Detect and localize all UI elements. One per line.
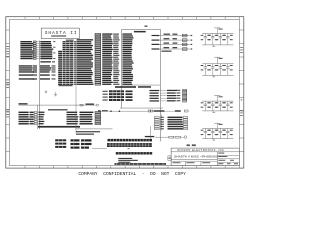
net pin row 22 of U1 <box>58 74 133 76</box>
resistor row R12 with net labels <box>19 67 56 69</box>
capacitor C12 <box>223 101 233 111</box>
resistor row R13 with net labels <box>19 69 56 71</box>
U1 bottom edge <box>120 107 163 109</box>
net pin row 19 of U1 <box>58 68 133 70</box>
wire horizontal net <box>19 104 96 106</box>
net pin row 6 of U1 <box>63 43 133 45</box>
capacitor C9 <box>201 101 211 111</box>
resistor row R14 with net labels <box>19 71 56 73</box>
resistor row R1 with net labels <box>20 41 55 43</box>
title block <box>171 148 239 166</box>
U1 lower pin row 1 <box>150 89 187 91</box>
mini header label <box>66 40 74 41</box>
resistor row R4 with net labels <box>20 47 55 49</box>
net pin row 24 of U1 <box>58 78 133 80</box>
wire <box>92 147 107 149</box>
capacitor C8 <box>223 64 233 76</box>
connector pin circle <box>96 104 99 106</box>
resistor row R19 with net labels <box>19 114 101 116</box>
resistor R17 inline <box>80 104 83 106</box>
capacitor C4 <box>223 34 233 45</box>
termination row 4 with resistor pack <box>154 123 187 125</box>
net stub label <box>145 26 148 27</box>
resistor row R21 with net labels <box>19 118 101 120</box>
net pin row 11 of U1 <box>58 53 132 55</box>
U1 reference label <box>134 31 146 33</box>
pull-up resistor R30 net <box>152 34 193 37</box>
capacitor C11 <box>216 101 226 111</box>
net pin row 16 of U1 <box>58 62 133 64</box>
capacitor bank CB2 bus wires <box>202 64 233 76</box>
resistor row R23 with net labels <box>19 123 101 125</box>
sheet size mark <box>187 144 196 146</box>
power rail tap VCC for CB2 <box>214 57 222 64</box>
U1 section label <box>115 86 151 88</box>
U1 lower pin row 4 <box>150 97 187 99</box>
net label row <box>40 61 55 62</box>
connector J3 pin strip <box>116 152 152 154</box>
resistor row R3 with net labels <box>20 45 51 47</box>
capacitor C13 <box>201 129 211 139</box>
module outline U3 <box>76 41 113 133</box>
capacitor C16 <box>223 129 233 139</box>
jumper block JP1 <box>55 139 66 148</box>
termination row 5 with resistor pack <box>154 126 187 128</box>
net pin row 10 of U1 <box>58 51 131 53</box>
ground stub for CB2 <box>212 75 215 77</box>
net label <box>19 103 28 104</box>
termination row 2 with resistor pack <box>154 119 187 121</box>
pull-up resistor R32 net <box>152 43 193 46</box>
wire vertical bus <box>39 41 41 130</box>
capacitor bank CB1 bus wires <box>202 34 233 45</box>
resistor row R9 with net labels <box>20 56 52 58</box>
U1 lower pin row 5 <box>150 100 187 102</box>
svg-text:SHASTA II MISC <PHOENIX>: SHASTA II MISC <PHOENIX> <box>174 155 219 159</box>
net pin row 3 of U1 <box>95 37 134 39</box>
ground <box>45 90 48 93</box>
net pin row 26 of U1 <box>58 82 131 84</box>
pull-up resistor R31 net <box>152 38 193 41</box>
wire <box>149 126 151 140</box>
net pin row 8 of U1 <box>63 47 132 49</box>
net pin row 17 of U1 <box>58 64 132 66</box>
net pin row 7 of U1 <box>63 45 132 47</box>
net pin row 9 of U1 <box>63 49 133 51</box>
capacitor bank CB3 bus wires <box>202 101 233 111</box>
resistor network row RN2 <box>98 110 188 112</box>
power rail tap VCC for CB3 <box>214 96 222 102</box>
resistor row R10 with net labels <box>20 58 55 60</box>
net pin row 5 of U1 <box>63 41 133 43</box>
net pin row 4 of U1 <box>77 39 133 41</box>
zone letter marks right <box>240 47 243 116</box>
ground stub for CB1 <box>212 45 215 47</box>
net pin row 2 of U1 <box>95 35 133 37</box>
resistor row R18 with net labels <box>19 112 101 114</box>
sheet notes text <box>118 158 138 163</box>
trailing light row <box>59 85 73 86</box>
capacitor C6 <box>208 64 218 76</box>
termination row 3 with resistor pack <box>154 121 187 123</box>
capacitor C5 <box>201 64 211 76</box>
resistor row R7 with net labels <box>20 52 55 54</box>
net pin row 1 of U1 <box>95 33 132 35</box>
capacitor C2 <box>208 34 218 45</box>
termination row 6 with resistor pack <box>154 128 187 130</box>
net label <box>162 51 172 52</box>
resistor row R22 with net labels <box>19 121 101 123</box>
net label <box>86 104 95 105</box>
resistor row R6 with net labels <box>20 50 52 52</box>
net pin row 18 of U1 <box>58 66 132 68</box>
net pin row 12 of U1 <box>58 55 131 57</box>
capacitor C3 <box>216 34 226 45</box>
sheet title box SHASTA II <box>41 28 79 38</box>
termination row 1 with resistor pack <box>154 117 187 119</box>
zone letter marks left <box>6 46 9 117</box>
power rail tap VCC for CB1 <box>214 28 222 34</box>
resistor pack RP1 rows <box>103 90 133 92</box>
revision box <box>168 156 171 160</box>
ground stub for CB3 <box>212 111 215 113</box>
ground <box>54 92 57 96</box>
resistor row R15 with net labels <box>19 74 56 76</box>
U1 lower pin row 3 <box>150 95 187 97</box>
table header label <box>48 109 68 110</box>
capacitor C1 <box>201 34 211 45</box>
wire stub <box>161 115 163 131</box>
net label rows under U3 <box>76 131 100 135</box>
IC U1 box outline <box>122 29 161 141</box>
svg-text:MICRON ELECTRONICS, INC.: MICRON ELECTRONICS, INC. <box>177 149 225 152</box>
jumper block JP2 <box>71 139 92 148</box>
wire bus pair lower <box>37 105 39 129</box>
net pin row 15 of U1 <box>58 60 133 62</box>
U1 section divider <box>122 84 161 86</box>
ground stub for CB4 <box>212 139 215 141</box>
bus ripper label row <box>38 126 80 128</box>
net pin row 13 of U1 <box>58 57 132 59</box>
net pin row 14 of U1 <box>58 58 132 60</box>
capacitor C7 <box>216 64 226 76</box>
net pin row 23 of U1 <box>58 76 133 78</box>
resistor row R16 with net labels <box>19 78 56 80</box>
connector J2 pin strip <box>107 143 152 147</box>
power rail tap VCC for CB4 <box>214 123 222 128</box>
resistor row R8 with net labels <box>20 54 52 56</box>
net pin row 25 of U1 <box>58 80 133 82</box>
net pin row 21 of U1 <box>58 72 131 74</box>
svg-text:COMPANY CONFIDENTIAL - DO: COMPANY CONFIDENTIAL - DO NOT COPY <box>78 171 186 177</box>
connector J1 pin strip <box>108 139 153 142</box>
resistor row R20 with net labels <box>19 116 101 118</box>
resistor row R2 with net labels <box>20 43 51 45</box>
capacitor C15 <box>216 129 226 139</box>
net pin row 20 of U1 <box>58 70 132 72</box>
pull-up resistor R33 net <box>152 47 193 50</box>
wire to test point <box>145 136 187 139</box>
wire stub under J2 <box>128 147 130 150</box>
net pin row 27 of U1 <box>58 84 132 86</box>
resistor row R5 with net labels <box>20 48 53 50</box>
capacitor C10 <box>208 101 218 111</box>
revision history row <box>115 163 167 165</box>
svg-text:SHASTA II: SHASTA II <box>45 30 78 36</box>
resistor row R11 with net labels <box>19 65 56 67</box>
U1 lower pin row 2 <box>150 92 187 94</box>
capacitor C14 <box>208 129 218 139</box>
capacitor bank CB4 bus wires <box>202 129 233 139</box>
